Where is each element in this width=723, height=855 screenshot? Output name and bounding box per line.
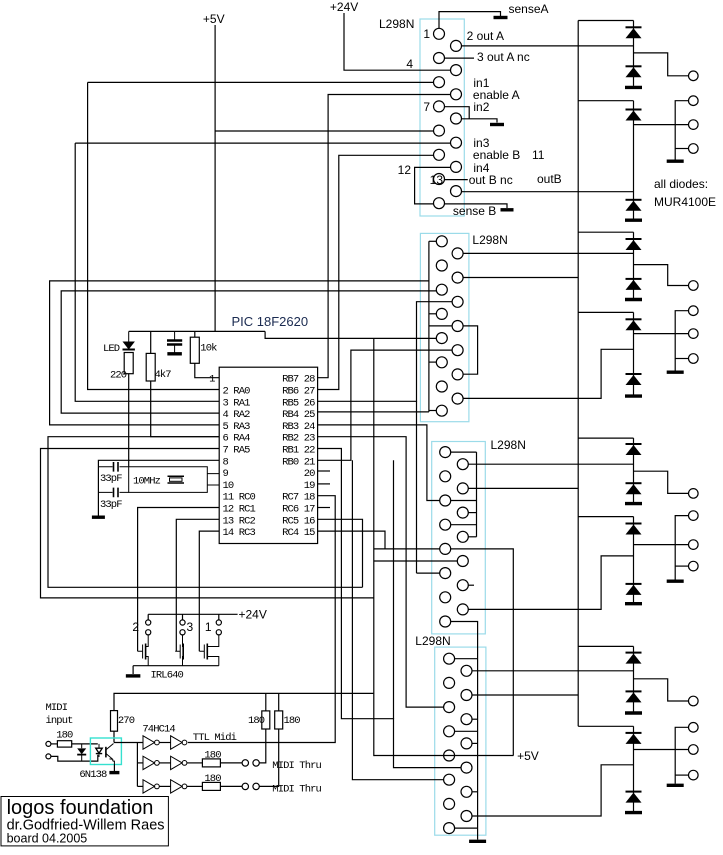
U3 pin 4 [457,483,468,494]
svg-text:13 RC2: 13 RC2 [223,515,256,527]
svg-text:RB3 24: RB3 24 [282,421,315,433]
wire U3 pin6 stub [468,512,476,514]
diode D2A MUR4100E [626,110,642,121]
node MIDI input pin 1 [46,741,51,746]
node connector pad 2b [689,120,699,130]
wire U1 pin10 in3 from RA1 [75,142,450,144]
U2 pin 12 [452,369,463,380]
U4 pin 8 [461,738,472,749]
wire tap group 1 to connector [634,53,689,76]
diode D6B MUR4100E [626,584,642,595]
wire RB0 to U2 in3 [318,350,453,460]
svg-text:2 out A: 2 out A [467,29,504,43]
U4 pin 3 [444,677,455,688]
svg-text:7: 7 [423,100,430,114]
ground group 4 [625,394,642,397]
svg-text:MIDI: MIDI [46,702,68,714]
svg-text:3 RA1: 3 RA1 [223,397,251,409]
svg-text:2 RA0: 2 RA0 [223,386,251,398]
resistor R 10k [190,337,199,363]
svg-text:33pF: 33pF [100,499,122,511]
wire thru 2 a [187,785,202,787]
U3 pin 11 [440,568,451,579]
svg-text:19: 19 [304,480,315,492]
wire RA1 to U1 in3 [75,143,219,401]
resistor R 180 thru 2 [202,782,220,790]
wire +24V bus vertical [577,21,579,727]
wire RC7 TTL midi [188,496,335,743]
capacitor C 33pF lower [98,488,128,498]
svg-text:TTL Midi: TTL Midi [193,732,237,744]
wire RC2 to Q3 gate [176,519,219,651]
svg-text:7 RA5: 7 RA5 [223,445,251,457]
wire +24V to U1 pin4 [344,13,451,70]
gate 74HC14 inverter 2a [143,756,159,769]
node MIDI input pin 2 [46,754,51,759]
wire U3 pin2 outA to diodes [468,463,633,465]
svg-text:sense B: sense B [453,204,496,218]
ground mosfets [126,674,141,677]
svg-text:L298N: L298N [379,17,414,31]
wire pullup2 to thru2 [259,729,278,786]
ground group 8 [625,811,642,814]
svg-text:6 RA4: 6 RA4 [223,433,251,445]
U4 pin 12 [461,786,472,797]
U1 pin 4 [451,65,462,76]
IC U4 L298N body box [435,647,486,835]
U2 pin 6 [452,296,463,307]
svg-text:10MHz: 10MHz [133,476,161,488]
wire +5V rail above PIC [129,330,265,332]
wire U3 pin12 stub [468,584,474,586]
diode D midi protection [77,744,86,761]
U1 pin 2 [451,40,462,51]
node connector pad group 7 [689,696,699,706]
wire branch to U3 pin11 [417,572,440,574]
svg-text:74HC14: 74HC14 [142,724,175,736]
svg-text:PIC 18F2620: PIC 18F2620 [232,314,309,329]
U1 pin 7 [434,101,445,112]
wire PIC pin8 to gnd vertical [98,460,219,515]
wire RA4 loop down [48,437,363,588]
U2 pin 11 [436,357,447,368]
U3 pin 10 [457,556,468,567]
diode D3B MUR4100E [626,279,642,290]
wire RC4 loop [318,531,385,549]
wire source rail to gnd [132,666,134,674]
svg-text:LED: LED [103,343,120,355]
U4 pin 13 [444,798,455,809]
U4 pin 15 [444,823,455,834]
svg-text:11: 11 [532,148,545,162]
wire connector gnd 2 [675,101,688,160]
svg-text:8: 8 [223,456,229,468]
wire +24V link group 2 [578,100,633,102]
svg-text:1: 1 [205,620,212,634]
svg-text:IRL640: IRL640 [151,670,184,682]
diode D5A MUR4100E [626,444,642,455]
node connector pad 4a [689,306,699,316]
transistor Q1 IRL640 [199,635,219,666]
wire +24V link group 8 [578,725,633,727]
svg-text:RB0 21: RB0 21 [282,456,315,468]
ground crystal [92,516,105,519]
svg-text:+5V: +5V [203,12,225,26]
svg-text:4k7: 4k7 [155,369,172,381]
svg-text:4: 4 [406,57,413,71]
diode D1B MUR4100E [626,66,642,77]
diode D1A MUR4100E [626,27,642,38]
wire RC1 to Q2 gate [138,508,220,652]
svg-text:MUR4100E: MUR4100E [654,195,716,209]
ground U4 rail [469,840,486,843]
wire jumper 3 top stub [182,614,184,620]
svg-text:RC4 15: RC4 15 [282,527,315,539]
node thru 2 pad A [242,783,248,789]
U1 pin 6 [451,89,462,100]
wire opto out [114,742,143,744]
node thru 1 pad B [253,760,259,766]
node connector pad 6a [689,511,699,521]
svg-text:5 RA3: 5 RA3 [223,421,251,433]
wire RA2 to U2 in1 [61,291,436,413]
resistor R 270 [111,711,118,732]
ground connector 8 [667,784,684,787]
wire diode col group 3 [633,232,635,298]
U2 pin 4 [452,272,463,283]
wire +5V to U1 pin9 [215,130,433,132]
wire U3 pin9 to U4 pin9 [451,549,514,756]
svg-text:RC7 18: RC7 18 [282,492,315,504]
wire connector stub 4 [675,358,688,360]
wire 10k to PIC pin1 [195,363,219,377]
node thru 2 pad B [253,783,259,789]
svg-text:13: 13 [430,173,444,187]
ground senseA [494,16,508,19]
ground group 3 [625,298,642,301]
gate 74HC14 inverter 3a [143,780,159,793]
svg-text:RB2 23: RB2 23 [282,433,315,445]
resistor R 180 pullup 1 [262,711,270,729]
wire U3 pin10 in3 feed [374,560,458,562]
U1 pin 14 [451,186,462,197]
svg-text:2: 2 [132,620,139,634]
U4 pin 5 [444,702,455,713]
diode D8B MUR4100E [626,792,642,803]
diode D7A MUR4100E [626,653,642,664]
wire diode col group 8 [633,726,635,811]
U3 pin 2 [457,459,468,470]
U3 pin 12 [457,580,468,591]
wire RB1 to U4 in3 part1 [318,449,461,768]
U4 pin 4 [461,690,472,701]
resistor R 180 thru 1 [202,759,220,767]
U2 pin 8 [452,321,463,332]
wire pullup2 top [278,693,280,711]
ground group 5 [625,502,642,505]
wire U2 gnd cluster vertical [428,241,430,412]
wire midi in bottom [51,755,98,761]
wire midi in top [51,743,58,745]
IC U2 L298N body box [420,233,469,421]
node connector pad 2a [689,96,699,106]
svg-text:3 out A nc: 3 out A nc [477,50,530,64]
wire tap group 6 middle [634,544,689,546]
U2 pin 3 [436,260,447,271]
svg-text:14 RC3: 14 RC3 [223,527,256,539]
wire jumper 1 top stub [218,614,220,620]
wire gate row 2 mid [159,762,170,764]
wire U2 pin11 tap [429,361,436,363]
wire diode col group 2 [633,101,635,219]
wire U4 pin1 tap [455,658,478,660]
wire U4 pin12 stub [472,791,478,793]
wire U4 pin9 +5V wire [374,755,514,757]
svg-text:180: 180 [56,730,73,742]
wire RB4 to U2 pin15 cluster [318,411,429,413]
svg-text:L298N: L298N [472,233,507,247]
wire RA3 loop [50,281,429,425]
microcontroller PIC 18F2620 body [219,367,317,543]
wire RB2 to U4 in1 [318,437,444,707]
U4 pin 7 [444,726,455,737]
ground connector 4 [667,371,684,374]
wire +24V link group 4 [578,311,633,313]
U2 pin 7 [436,308,447,319]
wire gate row 2 input [137,762,143,764]
wire U4 pin7 tap [455,730,478,732]
wire U2 pin4 to +24V bus [463,277,578,279]
ground group 1 [625,86,642,89]
wire U1 pin15 senseB to ground [445,204,508,208]
wire U1 pin5 in1 from RA0 [88,81,434,83]
diode D4A MUR4100E [626,319,642,330]
node jumper J3 bottom [180,630,185,635]
node connector pad group 3 [689,281,699,291]
wire +24V link group 5 [578,437,633,439]
optocoupler U5 6N138 box [90,738,121,765]
svg-text:out B nc: out B nc [469,173,513,187]
wire RB0 branch down [393,460,395,718]
wire U2 pin15 tap [429,410,436,412]
node jumper J1 top [216,620,221,625]
wire RA0 to U1 in1 [88,82,220,389]
wire +5V vertical [214,25,216,331]
svg-text:33pF: 33pF [100,473,122,485]
svg-text:12: 12 [398,163,412,177]
wire opto emitter to gnd [113,765,115,772]
diode D3A MUR4100E [626,239,642,250]
svg-text:9: 9 [223,468,229,480]
wire thru 2 b [220,785,242,787]
wire 4k7 bottom to PIC RA4 [151,381,220,437]
ground decoupling cap [167,352,182,355]
U1 pin 1 [434,28,445,39]
wire diode col group 4 [633,312,635,394]
node connector pad 6b [689,540,699,550]
wire diode col group 1 [633,21,635,86]
wire connector gnd 8 [675,727,688,784]
node connector pad 4c [689,354,699,364]
svg-text:senseA: senseA [509,2,549,16]
wire jumper 2 top stub [147,614,149,620]
svg-text:MIDI Thru: MIDI Thru [272,760,321,772]
U1 pin 11 [434,149,445,160]
wire U3 pin14 outB to diodes [468,556,633,610]
wire U4 pin8 stub [472,742,478,744]
wire U1 pin14 outB to diode column [462,191,634,193]
svg-text:board 04.2005: board 04.2005 [7,832,88,846]
transistor Q2 IRL640 [138,635,149,666]
svg-text:11 RC0: 11 RC0 [223,492,256,504]
wire diode col group 5 [633,438,635,502]
svg-text:3: 3 [187,620,194,634]
wire +5V vertical mid [373,338,375,756]
wire U1 pin8 to ground [462,119,498,123]
gate 74HC14 inverter 3b [171,780,187,793]
wire U1 pin6 enableA from RB7 [318,95,451,378]
ground sense B [501,208,514,211]
diode D5B MUR4100E [626,483,642,494]
U1 pin 10 [451,137,462,148]
wire PIC pin 19 stub [318,483,330,485]
wire tap group 5 to connector [634,471,689,493]
wire connector stub 2 [675,148,688,150]
wire mosfet source rail [133,665,219,667]
wire RA5 loop down [41,449,374,598]
wire U2 pin8 tap [429,325,452,327]
U4 pin 11 [444,774,455,785]
U4 pin 9 [444,750,455,761]
svg-text:10: 10 [223,480,234,492]
wire senseA U1 pin1 to ground [439,12,501,29]
U1 pin 9 [434,125,445,136]
svg-text:RB5 26: RB5 26 [282,397,315,409]
wire connector gnd 4 [675,311,688,371]
svg-text:1: 1 [423,27,430,41]
wire +24V mosfet rail [148,613,237,615]
wire +24V link group 6 [578,516,633,518]
diode D2B MUR4100E [626,200,642,211]
wire U2 pin8 to pin12 [463,326,478,374]
U3 pin 5 [440,495,451,506]
resistor R 180 pullup 2 [275,711,283,729]
resistor R 220 [124,353,133,374]
optocoupler U5 internals [96,744,115,765]
U3 pin 3 [440,471,451,482]
U1 pin 12 [451,161,462,172]
wire U3 pin5 tap [451,500,477,502]
wire LED/220 down to crystal box [128,374,130,467]
crystal X1 box outline [129,467,220,493]
svg-text:RC5 16: RC5 16 [282,515,315,527]
gate 74HC14 inverter 2b [171,756,187,769]
svg-text:outB: outB [537,172,562,186]
U3 pin 15 [440,616,451,627]
node connector pad 8c [689,770,699,780]
wire diode col group 6 [633,517,635,603]
wire U2 pin1 tap [429,240,436,242]
svg-text:270: 270 [118,715,135,727]
U3 pin 8 [457,531,468,542]
U2 pin 13 [436,381,447,392]
U3 pin 9 [440,543,451,554]
svg-text:L298N: L298N [491,438,526,452]
wire RB5 to U2 enableA and U3 enableB [318,302,453,402]
ground group 2 [625,218,642,221]
wire 4k7 to RA4 [150,331,152,353]
U4 pin 10 [461,762,472,773]
wire U4 pin15 tap [455,827,478,829]
U3 pin 1 [440,447,451,458]
U3 pin 14 [457,604,468,615]
U2 pin 14 [452,393,463,404]
svg-text:RB7 28: RB7 28 [282,374,315,386]
diode D8A MUR4100E [626,733,642,744]
svg-text:logos foundation: logos foundation [7,797,154,819]
capacitor C decoupling [167,331,182,352]
wire U1 in2 pin7 to pin8 row [445,107,470,119]
diode D6A MUR4100E [626,524,642,535]
wire tap group 2 middle [634,124,689,126]
svg-text:L298N: L298N [415,634,450,648]
ground group 6 [625,602,642,605]
svg-text:enable B: enable B [473,148,520,162]
wire RB3 to U3 in1 [318,425,440,501]
ground connector 6 [667,580,684,583]
svg-text:RB4 25: RB4 25 [282,409,315,421]
diode D4B MUR4100E [626,374,642,385]
wire tap group 8 middle [634,749,689,751]
U3 pin 13 [440,592,451,603]
node connector pad 2c [689,144,699,154]
U1 pin 5 [434,77,445,88]
svg-text:+24V: +24V [330,0,358,14]
LED D1 [123,331,135,349]
svg-text:10k: 10k [200,343,217,355]
svg-text:220: 220 [110,370,127,382]
U1 pin 13 [434,174,445,185]
resistor R 4k7 [146,353,155,381]
wire tap group 4 middle [634,333,689,335]
ground opto [109,771,119,774]
resistor R 180 midi input [57,741,71,747]
wire U3 pin15 to U4 gnd rail [451,622,478,840]
wire tap group 3 to connector [634,265,689,286]
U1 pin 8 [451,113,462,124]
svg-text:6N138: 6N138 [79,769,107,781]
wire U3 pin9 +5V [374,548,440,550]
svg-text:input: input [46,715,74,727]
wire connector stub 8 [675,774,688,776]
wire +5V rail drop to strips pin9 [265,331,436,338]
U2 pin 2 [452,248,463,259]
wire RB5 branch down to U3 pin11 [416,401,418,573]
wire thru 1 b [220,762,242,764]
wire U4 pin14 outB to diodes [472,765,634,816]
U4 pin 14 [461,811,472,822]
diode D7B MUR4100E [626,691,642,702]
wire gate row 1 mid [159,742,170,744]
svg-text:+5V: +5V [517,749,539,763]
wire U2 pin2 outA to diodes [463,252,633,254]
U3 pin 6 [457,507,468,518]
wire U4 pin4 to +24V bus [472,694,578,696]
svg-text:12 RC1: 12 RC1 [223,504,256,516]
wire U1 pin12 in4 to pin15 [415,167,451,204]
node jumper J2 top [146,620,151,625]
wire U3 pin8 tap [468,536,476,538]
